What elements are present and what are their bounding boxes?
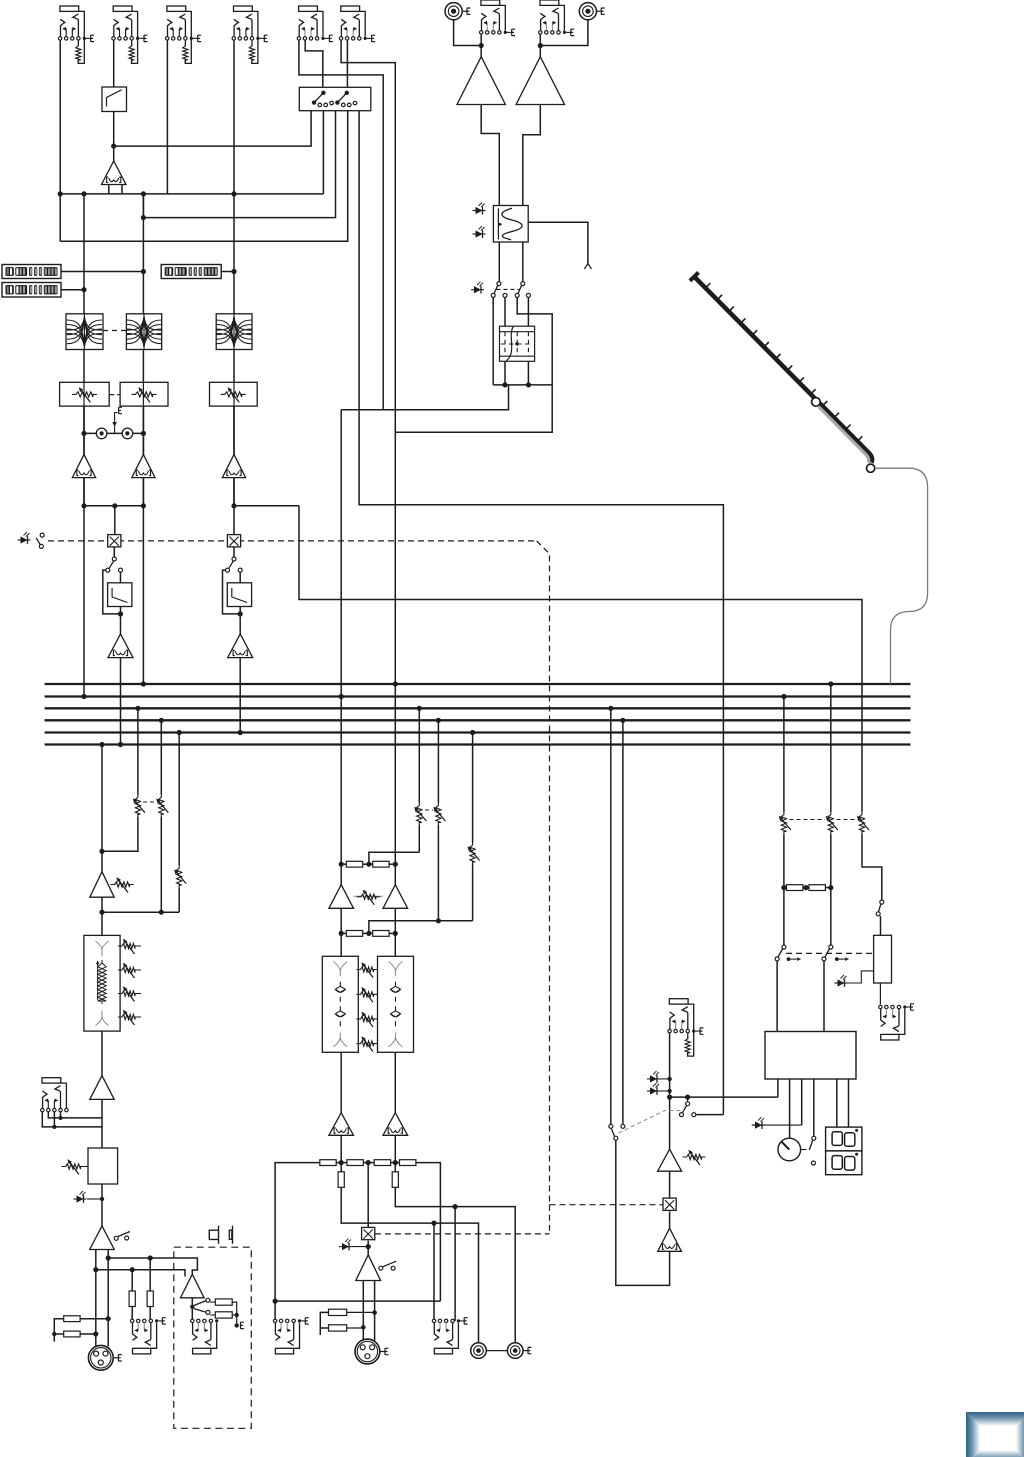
node ch2 R on bus1 bbox=[141, 681, 146, 686]
node fader out ch3 bbox=[239, 607, 241, 634]
oscillator box bbox=[493, 206, 528, 243]
dashed gang to box bbox=[786, 952, 874, 954]
bus line 1 bbox=[45, 683, 911, 685]
wire pads join bbox=[210, 1301, 215, 1303]
switch matrix lever B bbox=[335, 100, 339, 104]
node bbox=[620, 718, 625, 723]
jack input 1 bbox=[60, 6, 79, 11]
wire mono fader to box bbox=[862, 834, 882, 900]
wire row1 bbox=[341, 863, 346, 865]
wire mono sum bbox=[367, 1163, 369, 1228]
wire pad A to line bbox=[80, 1318, 108, 1320]
wire aux3 tap bbox=[178, 733, 180, 866]
wire routing out2 to input node line bbox=[322, 111, 324, 194]
node bbox=[828, 681, 833, 686]
wire jack2 tip down to HPF bbox=[113, 40, 115, 87]
node fader out ch12 bbox=[120, 607, 122, 634]
wire out B to knob bbox=[789, 1079, 791, 1138]
wire rca R to amp bbox=[540, 20, 588, 46]
wire footswitch a bbox=[42, 1112, 102, 1127]
node bbox=[526, 382, 531, 387]
wire slave amp out bbox=[191, 1298, 193, 1307]
RCA rec R bbox=[507, 1343, 523, 1359]
fader end node bbox=[867, 464, 875, 472]
wire bottom link bbox=[275, 1300, 440, 1302]
node meter C bbox=[231, 269, 236, 274]
node bus tap ch12 bbox=[118, 742, 123, 747]
dashed to mute line bbox=[375, 1233, 550, 1235]
fader ticks bbox=[706, 283, 711, 288]
wire L to power box bbox=[776, 961, 778, 1031]
node ground bbox=[235, 1323, 239, 1327]
node bbox=[470, 730, 475, 735]
wire pad B to line bbox=[80, 1333, 96, 1335]
EQ block ch1 bbox=[66, 314, 103, 350]
resistor row1 L bbox=[346, 861, 362, 867]
node bbox=[135, 706, 140, 711]
amp tape R bbox=[516, 57, 564, 105]
node bbox=[112, 503, 117, 508]
wire to compressor bbox=[101, 1099, 103, 1148]
node ch2 in bbox=[141, 215, 146, 220]
wire ch3 to master route bbox=[299, 506, 862, 812]
switch main amp bbox=[379, 1266, 383, 1270]
wire routing out4 to jack1 line bbox=[60, 111, 348, 242]
wire L master vertical bbox=[340, 410, 342, 864]
jack phones bbox=[881, 1034, 899, 1040]
wire ch3 strip vertical bbox=[233, 194, 235, 506]
wire slave send B bbox=[96, 1270, 185, 1277]
switch fader bypass ch3 bbox=[232, 557, 236, 561]
pot master R bbox=[828, 812, 833, 835]
wire slave amp to jack bbox=[191, 1307, 193, 1321]
wire HPF to amp bbox=[113, 112, 115, 162]
node ch3 in bbox=[231, 191, 236, 196]
wire ch12 to bus bbox=[120, 658, 122, 745]
LED main bbox=[342, 1243, 349, 1250]
resistor pad A bbox=[64, 1316, 80, 1322]
wire routing out1 to HPF node bbox=[114, 111, 311, 146]
wire slave send A bbox=[108, 1258, 197, 1274]
wire bbox=[669, 1211, 671, 1228]
wire to resistor row3 bbox=[340, 1135, 342, 1172]
EQ block ch2 bbox=[126, 314, 161, 350]
switch mon source bbox=[687, 1097, 689, 1102]
wire main balanced pair bbox=[362, 1281, 364, 1341]
node bbox=[235, 1313, 239, 1317]
switch tape select B bbox=[521, 282, 525, 286]
wire main pads bbox=[320, 1312, 328, 1335]
amp post fader ch12 bbox=[108, 634, 133, 658]
level meter C bbox=[161, 265, 221, 279]
node bbox=[81, 503, 86, 508]
jack main R bbox=[434, 1348, 452, 1354]
jack footswitch bbox=[42, 1078, 61, 1083]
wire row3 bbox=[336, 1162, 347, 1164]
wire ch12 to L bus feed bbox=[83, 506, 85, 697]
wire bypass bracket ch3 bbox=[223, 570, 241, 614]
wire mon jack down bbox=[669, 1033, 671, 1097]
node ch2 strip bbox=[141, 191, 146, 196]
wire out D to switch bbox=[813, 1079, 815, 1136]
node bbox=[106, 1316, 111, 1321]
node bbox=[436, 918, 441, 923]
resistor tap L bbox=[338, 1172, 344, 1188]
LED power bbox=[755, 1122, 762, 1129]
XLR main out bbox=[355, 1339, 380, 1364]
level meter B bbox=[2, 283, 61, 298]
wire aux1 master tap bbox=[137, 708, 139, 794]
seven segment display bbox=[826, 1127, 862, 1151]
amp mono out bbox=[90, 1226, 115, 1250]
node bbox=[52, 1332, 56, 1336]
wire L rec out bbox=[341, 1187, 478, 1342]
amp mono post EQ bbox=[90, 1076, 114, 1100]
amp post fader ch3 bbox=[228, 634, 253, 658]
resistor row3 a bbox=[320, 1160, 336, 1166]
power amp box bbox=[765, 1032, 856, 1080]
resistor sum L bbox=[787, 885, 803, 891]
wire pad bracket bbox=[54, 1319, 63, 1342]
wire bbox=[367, 1241, 369, 1255]
wire row3 right bbox=[416, 1163, 441, 1302]
EQ gang dashes bbox=[103, 330, 126, 332]
node ch1 L on bus2 bbox=[81, 694, 86, 699]
node bbox=[190, 1305, 194, 1309]
pot master L bbox=[781, 812, 786, 835]
resistor tap R bbox=[392, 1172, 398, 1188]
wire box to phones bbox=[879, 983, 881, 1005]
wire xfade feeds bbox=[492, 297, 494, 385]
wire mon sel A bbox=[610, 708, 612, 1124]
gang dash bbox=[497, 288, 520, 290]
wire rca L to amp bbox=[454, 20, 482, 46]
wire rca link bbox=[486, 1350, 507, 1352]
wire mono balanced pair bbox=[95, 1250, 97, 1347]
node bbox=[417, 706, 422, 711]
GEQ pots LR bbox=[357, 967, 378, 972]
switch fader bypass ch12 bbox=[112, 557, 116, 561]
node bbox=[159, 718, 164, 723]
wire mon sel B bbox=[622, 720, 624, 1124]
wire footswitch b bbox=[48, 1112, 102, 1118]
jack slave out bbox=[133, 1348, 151, 1354]
wire meter A bbox=[61, 271, 143, 273]
gain pot box ch2 bbox=[120, 382, 168, 406]
resistor main pad A bbox=[329, 1309, 347, 1315]
node bbox=[141, 503, 146, 508]
node bbox=[431, 1221, 436, 1226]
node R bus1 bbox=[393, 681, 398, 686]
node bbox=[781, 694, 786, 699]
aux2 master pot bbox=[159, 794, 164, 817]
switch mon select bbox=[614, 1136, 618, 1140]
LED comp bbox=[77, 1195, 84, 1202]
pot mon amp bbox=[683, 1154, 706, 1159]
switch mute bbox=[40, 533, 44, 537]
resistor slave pad B bbox=[215, 1312, 232, 1318]
RCA tape in L bbox=[445, 3, 462, 20]
node bus tap ch3 bbox=[238, 730, 243, 735]
wire jack5 switch to routing bbox=[305, 40, 323, 87]
amp ch1 bbox=[72, 454, 95, 477]
amp mon bbox=[658, 1149, 682, 1171]
node meter A bbox=[141, 269, 146, 274]
fader slider graphic bbox=[694, 277, 872, 463]
resistor row3 b bbox=[347, 1160, 363, 1166]
switch slave A bbox=[194, 1301, 206, 1306]
node bbox=[366, 862, 371, 867]
node bbox=[339, 1160, 344, 1165]
wire return row2 bbox=[369, 921, 473, 934]
wire ch3 to mute bbox=[233, 506, 235, 535]
wire out A to mon switch bbox=[777, 1079, 779, 1097]
jack input 6 (stereo R) bbox=[341, 6, 360, 11]
node bbox=[667, 1095, 672, 1100]
wire mute to fader switch ch3 bbox=[233, 548, 235, 560]
wire amp outs bbox=[83, 478, 85, 506]
insert ground bbox=[115, 413, 118, 434]
node bbox=[93, 1331, 98, 1336]
gang dashes masters bbox=[790, 819, 826, 821]
resistor row2 R bbox=[373, 931, 389, 937]
amp mon out bbox=[658, 1228, 682, 1251]
switch tape select A bbox=[497, 282, 501, 286]
insert jack L bbox=[96, 428, 107, 439]
node bbox=[130, 1267, 135, 1272]
amp line out L bbox=[329, 1113, 354, 1136]
LED osc A bbox=[476, 207, 483, 214]
gain pot box ch1 bbox=[60, 382, 110, 406]
wire jack6 switch to routing bbox=[346, 40, 348, 87]
pot aux B bbox=[436, 803, 441, 826]
aux3 pot bbox=[177, 865, 182, 888]
knob level bbox=[778, 1138, 801, 1161]
node bbox=[273, 1299, 278, 1304]
fader grey track bbox=[819, 407, 869, 464]
mon master amp bbox=[90, 872, 114, 898]
wire R to power box bbox=[823, 961, 825, 1031]
mute box mon bbox=[663, 1198, 676, 1210]
node bbox=[372, 1310, 377, 1315]
amp tape L bbox=[457, 57, 505, 105]
wire routing out5 long down bbox=[359, 111, 723, 1115]
LED mute bbox=[21, 536, 28, 543]
wire mute to fader switch ch12 bbox=[113, 548, 115, 560]
wire sum down to mute bbox=[114, 506, 116, 535]
wire rca earth bbox=[523, 1350, 528, 1352]
node bbox=[366, 931, 371, 936]
node ch1 in bbox=[58, 191, 63, 196]
wire jack taps bbox=[433, 1223, 435, 1321]
resistor row2 L bbox=[346, 931, 362, 937]
bus line 5 bbox=[45, 731, 911, 733]
fork end bbox=[584, 264, 591, 270]
node insert R bbox=[141, 431, 146, 436]
mon amp gain pot bbox=[111, 882, 134, 887]
amp master R bbox=[394, 864, 396, 885]
wire bypass bracket ch12 bbox=[103, 570, 121, 614]
inductor stack bbox=[98, 960, 106, 1004]
wire bbox=[233, 406, 235, 454]
pot aux A bbox=[417, 803, 422, 826]
node bbox=[148, 1255, 153, 1260]
node bbox=[361, 1325, 366, 1330]
wire bbox=[142, 406, 144, 454]
node bbox=[106, 1255, 111, 1260]
graphic EQ R bbox=[378, 956, 414, 1052]
fader wiper knob bbox=[812, 398, 821, 407]
wire row2 bbox=[340, 908, 342, 956]
wire GEQ out bbox=[101, 1031, 103, 1076]
fader box ch12 bbox=[120, 572, 122, 582]
LED tape bbox=[474, 286, 481, 293]
wire master L tap bbox=[783, 697, 785, 812]
XLR mono out bbox=[88, 1345, 113, 1370]
aux1 master pot bbox=[135, 794, 140, 817]
wire aux2 master tap bbox=[160, 720, 162, 794]
node HPF out bbox=[111, 144, 116, 149]
dashed gang mon bbox=[619, 1111, 685, 1134]
high-pass filter box bbox=[102, 87, 127, 112]
amp select box bbox=[874, 935, 892, 983]
node bbox=[366, 1160, 371, 1165]
wire outs to display bbox=[836, 1079, 838, 1127]
mute box main bbox=[362, 1227, 375, 1239]
node ch1 strip bbox=[81, 191, 86, 196]
wire mon amp out bbox=[101, 897, 103, 935]
jack mon send bbox=[669, 999, 688, 1004]
wire R master vertical bbox=[394, 432, 396, 864]
gain pot box ch3 bbox=[210, 382, 258, 406]
bus line 3 bbox=[45, 707, 911, 709]
wire jack5 tip to L tape line bbox=[299, 40, 383, 410]
wire row3 left to jack L bbox=[275, 1163, 320, 1321]
pot master mono bbox=[859, 812, 864, 835]
graphic EQ box mono bbox=[84, 935, 120, 1031]
pot gang dashes bbox=[109, 394, 120, 396]
node bbox=[231, 503, 236, 508]
node bbox=[502, 382, 507, 387]
wire tape R to osc box bbox=[523, 105, 541, 206]
node bbox=[339, 931, 344, 936]
node bbox=[781, 885, 786, 890]
LED protect bbox=[838, 979, 845, 986]
dashed mute line bbox=[48, 540, 537, 542]
wire aux taps join bbox=[102, 911, 179, 913]
LED osc B bbox=[476, 230, 483, 237]
jack slave speaker bbox=[193, 1348, 211, 1354]
node bbox=[99, 910, 104, 915]
node bbox=[393, 931, 398, 936]
node bbox=[93, 1267, 98, 1272]
node bbox=[52, 1125, 56, 1129]
wire jack3 tip down bbox=[166, 40, 168, 194]
compressor box bbox=[88, 1148, 118, 1184]
switch matrix lever A bbox=[312, 100, 316, 104]
node bbox=[58, 1116, 62, 1120]
wire mon to amp bbox=[669, 1097, 671, 1149]
bus line 6 bbox=[45, 743, 911, 745]
wire meter B bbox=[61, 289, 84, 291]
wire jack4 tip down bbox=[233, 40, 235, 194]
resistor row3 c bbox=[374, 1160, 390, 1166]
wire aux C tap bbox=[472, 733, 474, 843]
switch master L mute bbox=[782, 945, 786, 949]
wire insert sum row1 bbox=[369, 852, 419, 864]
switch matrix box bbox=[299, 87, 371, 110]
LED mon B bbox=[650, 1087, 657, 1094]
wire aux send A tap bbox=[418, 708, 420, 803]
node bbox=[608, 706, 613, 711]
gang dash bbox=[425, 809, 433, 811]
switch mono amp bbox=[114, 1236, 118, 1240]
wire tape L to osc box bbox=[481, 105, 499, 206]
wire ch3 to bus bbox=[239, 658, 241, 733]
resistor slave pad A bbox=[215, 1299, 232, 1305]
wire osc out arm bbox=[528, 222, 588, 263]
switch out D bbox=[812, 1136, 816, 1140]
amp master L bbox=[340, 864, 342, 885]
resistor pad B bbox=[64, 1331, 80, 1337]
node bbox=[479, 43, 484, 48]
node bbox=[99, 849, 104, 854]
RCA tape in R bbox=[579, 3, 596, 20]
node bbox=[538, 43, 543, 48]
switch slave B bbox=[194, 1309, 206, 1313]
wire fader to master bbox=[875, 468, 928, 684]
wire ch3 junction bbox=[234, 505, 299, 507]
jack tape R bbox=[540, 0, 559, 5]
node bbox=[177, 730, 182, 735]
node bbox=[393, 862, 398, 867]
amp ch2 bbox=[132, 454, 155, 477]
wire out C bbox=[801, 1079, 803, 1125]
node bbox=[339, 862, 344, 867]
wire to power feed bbox=[696, 1114, 723, 1116]
wire comp out bbox=[101, 1184, 103, 1226]
dashed mute drop bbox=[549, 1205, 551, 1234]
jack main L bbox=[275, 1348, 293, 1354]
wire jack1 tip down bbox=[59, 40, 61, 241]
wire LED wire bbox=[752, 1124, 802, 1126]
node bbox=[100, 1197, 104, 1201]
pan pot bbox=[354, 895, 383, 897]
wire bbox=[83, 406, 85, 454]
aux pot gang dash bbox=[143, 801, 156, 803]
amp main power bbox=[356, 1255, 381, 1281]
speaker icon A bbox=[209, 1230, 218, 1239]
wire ch1-ch2 sum bbox=[84, 505, 143, 507]
pot aux C bbox=[470, 842, 475, 865]
wire insert row bbox=[84, 432, 143, 434]
wire sum row bbox=[784, 887, 787, 889]
amp slave bbox=[181, 1274, 205, 1298]
wire GEQ L out bbox=[340, 1052, 342, 1112]
resistor slave A bbox=[131, 1270, 133, 1291]
node meter B bbox=[81, 287, 86, 292]
wire xfade out row bbox=[493, 384, 528, 386]
amp line out R bbox=[383, 1113, 408, 1136]
wire master R tap bbox=[830, 684, 832, 812]
mute switch box ch3 bbox=[227, 535, 240, 547]
dashed mon mute bbox=[550, 1204, 663, 1206]
wire aux send B tap bbox=[437, 720, 439, 803]
node bbox=[803, 885, 808, 890]
mute switch box ch1 bbox=[108, 535, 121, 547]
wire ch1 strip vertical bbox=[83, 194, 85, 506]
amp ch3 bbox=[222, 454, 245, 477]
